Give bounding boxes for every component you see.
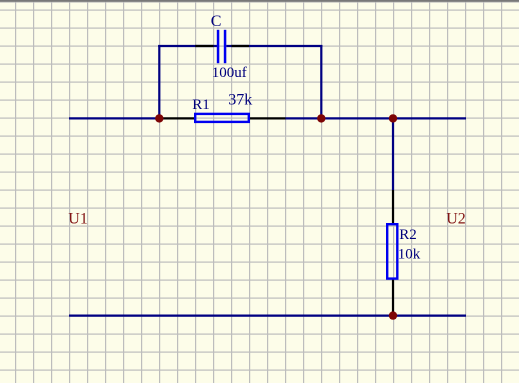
- wire: capacitor loop left vertical: [158, 45, 160, 118]
- svg-text:10k: 10k: [398, 246, 421, 262]
- wire: top net middle-right segment: [286, 117, 467, 119]
- capacitor C left plate: [217, 30, 220, 63]
- svg-text:U2: U2: [446, 210, 466, 227]
- resistor R2 bottom pin: [392, 279, 394, 316]
- wire: bottom net: [69, 315, 466, 317]
- wire: capacitor loop right vertical: [320, 45, 322, 118]
- junction at R1 left / cap left: [155, 114, 163, 122]
- resistor R2 top pin: [392, 190, 394, 224]
- svg-text:100uf: 100uf: [212, 65, 247, 81]
- wire: top net left segment: [69, 117, 159, 119]
- resistor R1 left pin: [159, 117, 195, 119]
- svg-text:R1: R1: [192, 97, 210, 113]
- svg-text:37k: 37k: [228, 91, 252, 108]
- wire: capacitor top left horizontal: [158, 45, 217, 47]
- capacitor C left pin: [195, 45, 213, 47]
- svg-text:R2: R2: [399, 227, 417, 243]
- wire: capacitor top right horizontal: [226, 45, 322, 47]
- capacitor C right plate: [224, 30, 227, 63]
- svg-text:U1: U1: [68, 210, 88, 227]
- resistor R2 body: [387, 224, 397, 278]
- resistor R1 body: [195, 114, 249, 122]
- sheet top border strip: [0, 0, 519, 2]
- junction at R2 top: [389, 114, 397, 122]
- junction at R2 bottom: [389, 311, 397, 319]
- junction at cap right: [317, 114, 325, 122]
- wire: R2 branch vertical: [392, 118, 394, 190]
- capacitor C right pin: [232, 45, 250, 47]
- svg-text:C: C: [211, 13, 222, 30]
- resistor R1 right pin: [249, 117, 286, 119]
